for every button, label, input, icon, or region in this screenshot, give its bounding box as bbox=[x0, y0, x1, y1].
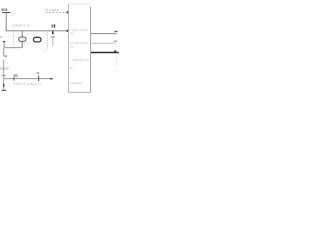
svg-text:3V3: 3V3 bbox=[1, 8, 7, 12]
svg-text:CxBxxLQ: CxBxxLQ bbox=[13, 82, 25, 86]
svg-text:TxTxLxVO#: TxTxLxVO# bbox=[70, 28, 88, 32]
svg-text:CxBxKL Lx: CxBxKL Lx bbox=[27, 82, 42, 86]
svg-text:u: u bbox=[5, 54, 7, 58]
svg-text:)O+O: )O+O bbox=[0, 67, 9, 71]
svg-text:41: 41 bbox=[36, 71, 40, 75]
svg-text:C1: C1 bbox=[11, 12, 15, 16]
svg-text:BC: BC bbox=[14, 73, 19, 77]
svg-text:L1 bLM18: L1 bLM18 bbox=[45, 8, 59, 12]
svg-text:TAGdka: TAGdka bbox=[70, 81, 82, 85]
svg-text:TxTxLxCO#: TxTxLxCO# bbox=[70, 41, 88, 45]
svg-text:2N4951L2JL: 2N4951L2JL bbox=[72, 58, 91, 62]
svg-text:1RRNR R JF: 1RRNR R JF bbox=[12, 23, 30, 27]
